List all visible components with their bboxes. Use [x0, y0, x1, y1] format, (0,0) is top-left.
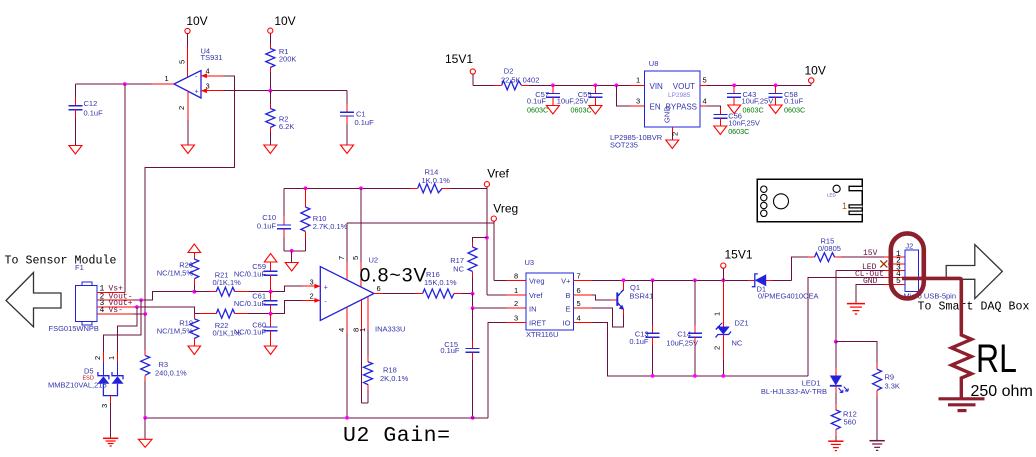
- ground under C56: [714, 126, 727, 135]
- resistor R15: [815, 237, 841, 262]
- svg-text:U2 Gain=: U2 Gain=: [343, 424, 450, 448]
- svg-text:Vref: Vref: [529, 291, 543, 300]
- junction LED1/R9: [834, 340, 838, 344]
- resistor R19: [157, 314, 199, 346]
- svg-text:2.7K,0.1%: 2.7K,0.1%: [313, 222, 348, 231]
- resistor R1: [266, 33, 297, 90]
- svg-text:10uF,25V: 10uF,25V: [742, 97, 774, 106]
- diode DZ1 (zener, NC): [713, 280, 749, 376]
- wire U2 pin7 V+: [337, 223, 347, 280]
- svg-text:Vref: Vref: [487, 167, 509, 181]
- ground arrow below C60: [264, 346, 277, 355]
- svg-text:C12: C12: [84, 99, 98, 108]
- wire U3 pin6 to Q1 base: [574, 295, 618, 300]
- svg-text:IRET: IRET: [529, 319, 547, 328]
- junction gnd stem: [290, 249, 294, 253]
- connector F1: [49, 263, 99, 333]
- svg-text:NC/0.1uF: NC/0.1uF: [234, 299, 267, 308]
- svg-text:0.1uF: 0.1uF: [355, 118, 375, 127]
- svg-text:15V1: 15V1: [445, 52, 473, 66]
- arrow to smart DAQ box: [946, 245, 1002, 299]
- wire to R9: [836, 342, 877, 363]
- svg-text:0603C: 0603C: [784, 106, 805, 115]
- svg-text:MMBZ10VAL,215: MMBZ10VAL,215: [48, 381, 107, 390]
- U8 pin 2 ground: [666, 127, 680, 149]
- junction C13 bottom: [651, 374, 655, 378]
- resistor R12: [831, 404, 856, 441]
- svg-text:5: 5: [896, 277, 901, 286]
- junction R20/Vout- row: [192, 290, 196, 294]
- svg-text:1: 1: [842, 201, 847, 211]
- svg-text:0603C: 0603C: [743, 106, 764, 115]
- svg-text:5: 5: [178, 60, 187, 64]
- wire IRET to U3 pin3: [506, 322, 526, 324]
- ground under C12: [69, 146, 82, 155]
- svg-text:2: 2: [310, 292, 314, 301]
- junction U2 pin4 / rail: [345, 416, 349, 420]
- wire U2 pin5 REF: [351, 188, 361, 287]
- svg-text:NC/1M,5%: NC/1M,5%: [157, 327, 194, 336]
- svg-text:J2: J2: [905, 242, 913, 251]
- svg-text:2: 2: [671, 132, 680, 136]
- wire CL-Out to J2 pin4: [808, 270, 905, 376]
- junction R1/R2/pin3: [268, 89, 272, 93]
- junction Vref/R17: [485, 236, 489, 240]
- svg-text:DZ1: DZ1: [735, 319, 749, 328]
- resistor R21: [194, 271, 270, 297]
- capacitor C10: [257, 188, 291, 251]
- wire GND to J2 pin5: [856, 277, 905, 303]
- F1 pin 2 Vout-: [97, 292, 195, 302]
- svg-text:3.3K: 3.3K: [885, 382, 900, 391]
- svg-text:R9: R9: [885, 373, 895, 382]
- svg-text:6: 6: [577, 286, 581, 295]
- svg-text:2: 2: [177, 106, 186, 110]
- svg-text:RL: RL: [976, 336, 1017, 381]
- svg-text:NC: NC: [732, 339, 743, 348]
- svg-text:B: B: [565, 291, 570, 300]
- thick loop wire to RL: [902, 278, 961, 330]
- wire U3 pin7 V+ rail: [574, 279, 755, 281]
- svg-text:5: 5: [577, 299, 581, 308]
- resistor RL (load): [952, 331, 1033, 401]
- U4 pin 2 wire + ground: [181, 91, 194, 153]
- junction rail/U2 pin5: [359, 186, 363, 190]
- resistor R3: [141, 314, 187, 418]
- wire LED branch vertical: [835, 271, 837, 342]
- svg-text:U3: U3: [525, 258, 535, 267]
- junction Vout- branch: [139, 298, 143, 302]
- wire D1 to R15: [773, 257, 815, 280]
- ground under C1: [341, 145, 354, 154]
- power arrow above C59: [264, 254, 277, 263]
- resistor R20: [157, 253, 199, 292]
- svg-text:VIN: VIN: [650, 82, 664, 91]
- diode D5 (dual ESD): [48, 352, 124, 396]
- svg-text:10uF,25V: 10uF,25V: [557, 97, 589, 106]
- power 15V1 (right): [721, 248, 753, 281]
- transistor Q1 BSR41: [617, 283, 653, 310]
- wire 10V to U4 pin5: [187, 34, 189, 77]
- svg-text:0603C: 0603C: [728, 127, 749, 136]
- junction R3/rail: [143, 416, 147, 420]
- svg-text:0.1uF: 0.1uF: [440, 346, 460, 355]
- IC U8 LP2985: [610, 59, 707, 150]
- svg-text:1: 1: [514, 286, 518, 295]
- capacitor C1: [340, 91, 374, 145]
- wire Vref to U3 pin1: [487, 294, 526, 296]
- U4 pin 3 wire: [201, 82, 347, 94]
- svg-text:2: 2: [713, 346, 722, 350]
- svg-text:V+: V+: [561, 277, 571, 286]
- resistor R10: [301, 188, 348, 251]
- svg-text:BL-HJL33J-AV-TRB: BL-HJL33J-AV-TRB: [761, 387, 827, 396]
- svg-text:15V: 15V: [863, 249, 878, 258]
- power 10V (top right): [805, 64, 826, 84]
- svg-text:FSG015WNPB: FSG015WNPB: [49, 324, 99, 333]
- wire U8 VOUT to 10V: [700, 83, 811, 85]
- ground at J2 pin5: [847, 304, 865, 314]
- wire Vreg rail: [347, 222, 494, 224]
- capacitor C61: [234, 292, 278, 314]
- svg-text:0.1uF: 0.1uF: [257, 222, 277, 231]
- wire C10/R10 common: [284, 250, 305, 252]
- svg-text:5: 5: [351, 256, 360, 260]
- LED LED1: [761, 342, 848, 404]
- ground under C58: [769, 105, 782, 114]
- diode D2 (0-ohm jumper symbol): [501, 67, 539, 90]
- wire LED net to J2 pin3: [836, 263, 905, 272]
- junction C15/bottom rail: [471, 416, 475, 420]
- junction C58: [774, 83, 778, 87]
- resistor R9: [873, 363, 900, 440]
- wire Vout- to D5 left: [103, 300, 141, 352]
- capacitor C59: [234, 262, 278, 292]
- svg-text:3: 3: [100, 404, 109, 408]
- svg-text:1: 1: [107, 356, 116, 360]
- junction Q1/rail: [622, 278, 626, 282]
- svg-text:U2: U2: [369, 256, 379, 265]
- svg-text:4: 4: [577, 314, 581, 323]
- junction C57: [551, 83, 555, 87]
- svg-text:Vreg: Vreg: [493, 202, 518, 216]
- connector J2 Micro-USB: [896, 242, 956, 301]
- wire Vout+ to D5 right: [118, 307, 137, 352]
- ground under C57: [546, 106, 559, 115]
- ground under R9: [870, 441, 885, 451]
- junction Vs- branch: [143, 312, 147, 316]
- power 10V (right): [268, 14, 296, 33]
- svg-text:D2: D2: [504, 67, 514, 76]
- PCB module footprint drawing: [757, 179, 862, 221]
- svg-text:6.2K: 6.2K: [279, 122, 294, 131]
- svg-text:LP2985: LP2985: [668, 92, 691, 99]
- U4 pin 1 output wire: [75, 74, 174, 84]
- junction C55: [594, 83, 598, 87]
- svg-text:7: 7: [577, 272, 581, 281]
- F1 pin 3 Vout+: [97, 299, 201, 314]
- svg-text:1: 1: [165, 74, 169, 83]
- wire 15V1 to D2: [473, 74, 502, 85]
- wire Q1 collector: [623, 280, 625, 290]
- svg-text:VOUT: VOUT: [673, 82, 695, 91]
- svg-text:10V: 10V: [805, 64, 826, 78]
- svg-text:U8: U8: [649, 59, 659, 68]
- wire U3 pin4 IO to bottom rail: [574, 323, 808, 376]
- capacitor C58: [769, 85, 806, 114]
- capacitor C43: [727, 85, 773, 114]
- diode D1 schottky: [748, 274, 818, 301]
- power 15V1 (left): [445, 52, 475, 74]
- U4 pin 4 feedback wire: [145, 67, 234, 314]
- node Vref: [484, 167, 509, 295]
- svg-text:0.1uF: 0.1uF: [784, 97, 804, 106]
- F1 pin 1 Vs+: [97, 285, 125, 294]
- junction DZ1/15V1 top: [721, 278, 725, 282]
- wire to U8 EN: [616, 85, 644, 106]
- svg-text:NC/0.1uF: NC/0.1uF: [234, 270, 267, 279]
- power arrow above R20: [188, 244, 201, 253]
- svg-text:1: 1: [358, 328, 367, 332]
- svg-text:3: 3: [310, 278, 314, 287]
- svg-text:TS931: TS931: [201, 53, 223, 62]
- svg-text:IN: IN: [529, 304, 537, 313]
- resistor R17 (NC): [450, 238, 487, 294]
- svg-text:GND: GND: [663, 106, 672, 123]
- resistor R22: [201, 309, 271, 337]
- svg-text:SOT235: SOT235: [610, 141, 638, 150]
- svg-text:3: 3: [514, 314, 518, 323]
- svg-text:10V: 10V: [274, 14, 295, 28]
- svg-text:EN: EN: [650, 103, 661, 112]
- svg-text:0603C: 0603C: [527, 106, 548, 115]
- svg-text:BSR41: BSR41: [630, 292, 654, 301]
- capacitor C13: [629, 280, 659, 376]
- svg-text:5: 5: [703, 76, 707, 85]
- svg-text:0/1K,1%: 0/1K,1%: [213, 278, 242, 287]
- wire D2 to U8 VIN: [521, 84, 644, 86]
- svg-text:C14: C14: [677, 330, 691, 339]
- D5 pin 3 ground: [100, 396, 118, 446]
- svg-text:15V1: 15V1: [725, 248, 753, 262]
- junction IN row: [471, 306, 475, 310]
- ground under R2: [264, 145, 277, 154]
- svg-text:0.1uF: 0.1uF: [84, 109, 104, 118]
- U2 pin 4 wire: [337, 307, 347, 418]
- wire Vs+ vertical: [124, 84, 126, 292]
- svg-text:D5: D5: [84, 367, 94, 376]
- junction Vout+ branch: [135, 305, 139, 309]
- ground arrow below R19: [188, 346, 201, 355]
- svg-text:7: 7: [337, 256, 346, 260]
- svg-text:2K,0.1%: 2K,0.1%: [380, 374, 409, 383]
- svg-text:1: 1: [713, 312, 722, 316]
- resistor R2: [266, 91, 295, 145]
- svg-text:1K,0.1%: 1K,0.1%: [422, 176, 451, 185]
- ground under C55: [589, 106, 602, 115]
- wire U8 BYPASS to C56: [700, 106, 720, 114]
- junction C43: [732, 83, 736, 87]
- arrow to sensor module: [6, 273, 61, 327]
- capacitor C60: [234, 314, 278, 346]
- svg-text:15K,0.1%: 15K,0.1%: [424, 278, 457, 287]
- svg-text:+: +: [324, 285, 328, 292]
- capacitor C14: [666, 280, 702, 376]
- wire Vref rail: [284, 187, 487, 189]
- capacitor C57: [527, 85, 560, 114]
- op-amp U2 INA333: [320, 256, 405, 334]
- svg-text:200K: 200K: [279, 55, 297, 64]
- wire bottom rail (U2 area): [145, 417, 488, 419]
- svg-text:E: E: [565, 304, 570, 313]
- svg-text:2: 2: [93, 356, 102, 360]
- U2 pin 2 input: [271, 292, 321, 314]
- junction C13 top: [651, 278, 655, 282]
- junction: output / Vs+: [123, 82, 127, 86]
- junction DZ1 bottom: [721, 374, 725, 378]
- svg-text:XTR116U: XTR116U: [526, 330, 558, 339]
- capacitor C12: [68, 84, 103, 145]
- svg-text:4: 4: [337, 328, 346, 332]
- svg-text:4: 4: [703, 97, 707, 106]
- node Vreg: [491, 202, 518, 281]
- capacitor C55: [557, 85, 603, 114]
- svg-text:240,0.1%: 240,0.1%: [155, 369, 187, 378]
- svg-text:Vreg: Vreg: [529, 277, 545, 286]
- svg-text:560: 560: [844, 418, 857, 427]
- junction C14 top: [693, 278, 697, 282]
- svg-text:0/PMEG4010CEA: 0/PMEG4010CEA: [758, 292, 818, 301]
- svg-text:NC/0.1uF: NC/0.1uF: [234, 328, 267, 337]
- ground under C43: [728, 105, 741, 114]
- svg-text:NC: NC: [453, 265, 464, 274]
- svg-text:22.5K 0402: 22.5K 0402: [501, 76, 539, 85]
- svg-text:6: 6: [377, 284, 381, 293]
- svg-text:0/0805: 0/0805: [818, 244, 841, 253]
- junction C14 bottom: [693, 374, 697, 378]
- junction C59/row: [269, 290, 273, 294]
- svg-text:To Smart DAQ Box: To Smart DAQ Box: [918, 301, 1030, 314]
- capacitor C15: [440, 308, 479, 418]
- svg-text:1: 1: [636, 76, 640, 85]
- ground under R12: [828, 441, 843, 450]
- svg-text:3: 3: [636, 97, 640, 106]
- junction R16/R17: [471, 292, 475, 296]
- ground under C10/R10: [285, 251, 298, 271]
- svg-text:0.1uF: 0.1uF: [629, 337, 649, 346]
- wire node to U3 IN: [473, 294, 506, 309]
- junction EN branch: [615, 83, 619, 87]
- U2 pins 8/1 gain loop with R18: [351, 297, 368, 403]
- svg-text:2: 2: [514, 299, 518, 308]
- IC U3 XTR116U: [514, 258, 581, 339]
- wire R15 to J2 pin1: [835, 249, 905, 258]
- wire IN to U3 pin2: [506, 307, 526, 309]
- J2 pin2 no-connect: [880, 260, 905, 267]
- U2 pin 6 output / resistor R16: [374, 270, 473, 298]
- power 10V (left): [185, 14, 208, 34]
- wire U3 pin5 E to Q1 emitter: [574, 308, 624, 327]
- svg-text:+: +: [195, 89, 199, 96]
- resistor R14: [418, 168, 450, 193]
- svg-text:GND: GND: [863, 277, 878, 286]
- svg-text:To Sensor Module: To Sensor Module: [5, 255, 117, 268]
- wire Vreg to U3 pin8: [494, 279, 526, 281]
- junction rail/R10: [304, 186, 308, 190]
- svg-text:NC/1M,5%: NC/1M,5%: [157, 269, 194, 278]
- highlight ellipse around J2: [891, 233, 924, 298]
- junction C61/row: [269, 312, 273, 316]
- svg-text:0.8~3V: 0.8~3V: [360, 265, 427, 287]
- svg-text:INA333U: INA333U: [375, 325, 405, 334]
- ground under RL: [939, 399, 985, 411]
- F1 pin 4 Vs-: [97, 306, 145, 315]
- capacitor C56: [713, 112, 760, 137]
- op-amp U4: [174, 47, 223, 111]
- svg-text:0.1uF: 0.1uF: [527, 97, 547, 106]
- ground under R3: [138, 418, 152, 448]
- wire rail to U3 IRET: [488, 323, 506, 418]
- resistor R18: [364, 362, 409, 385]
- svg-text:F1: F1: [75, 263, 84, 272]
- svg-text:0603C: 0603C: [571, 106, 592, 115]
- svg-text:IO: IO: [563, 319, 571, 328]
- svg-text:8: 8: [514, 272, 518, 281]
- svg-text:10uF,25V: 10uF,25V: [666, 339, 698, 348]
- svg-text:10V: 10V: [186, 14, 207, 28]
- svg-text:LED: LED: [827, 193, 837, 198]
- U2 pin 3 input: [271, 278, 321, 292]
